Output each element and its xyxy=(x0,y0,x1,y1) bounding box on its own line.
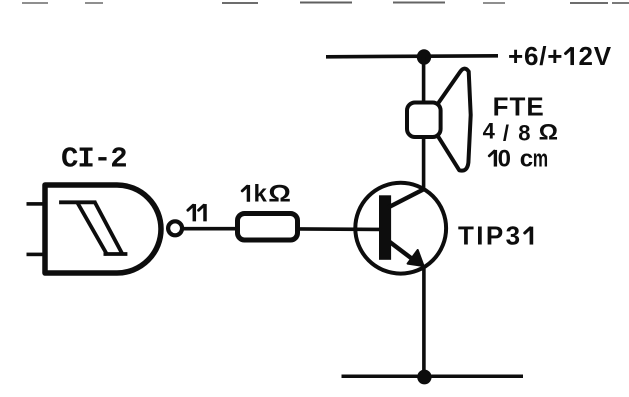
label +6/+12V xyxy=(508,41,612,71)
transistor Q1 TIP31 body circle xyxy=(355,183,446,274)
svg-text:2V: 2V xyxy=(579,41,612,71)
emitter lead xyxy=(388,240,414,259)
svg-text:c: c xyxy=(520,146,533,173)
speaker cone xyxy=(438,69,471,171)
svg-text:0: 0 xyxy=(498,146,511,173)
svg-text:k: k xyxy=(254,181,268,208)
resistor 1k body xyxy=(238,214,298,241)
wire gate output to resistor xyxy=(183,227,238,231)
svg-text:Ω: Ω xyxy=(268,180,291,207)
wire speaker to collector xyxy=(422,137,426,189)
svg-text:TIP3: TIP3 xyxy=(458,221,523,251)
junction dot at ground rail xyxy=(417,370,431,385)
wire base to resistor xyxy=(298,227,380,231)
wire emitter to ground rail xyxy=(422,265,426,376)
speaker FTE driver box xyxy=(407,103,441,138)
svg-text:m: m xyxy=(533,146,548,172)
gate input stub top xyxy=(27,202,43,206)
svg-text:FTE: FTE xyxy=(493,92,545,122)
gate input stub bottom xyxy=(27,253,43,257)
collector lead xyxy=(388,189,424,208)
power rail +6/+12V xyxy=(326,56,498,57)
wire rail to speaker xyxy=(422,57,426,104)
nand gate CI-2 outline xyxy=(45,185,161,273)
ground rail xyxy=(342,375,524,379)
pin number 11 xyxy=(188,205,205,219)
emitter arrowhead xyxy=(408,250,424,266)
label 10 cm xyxy=(489,146,548,173)
svg-text:4: 4 xyxy=(483,119,496,144)
schmitt trigger hysteresis symbol xyxy=(61,202,126,254)
label 1k ohm xyxy=(242,180,291,208)
svg-text:+6/+: +6/+ xyxy=(508,41,563,71)
svg-text:CI-2: CI-2 xyxy=(61,143,127,176)
label 4/8 ohm xyxy=(483,119,558,146)
label TIP31 xyxy=(458,221,531,251)
gate output bubble xyxy=(168,221,182,235)
junction dot at power rail xyxy=(417,49,431,64)
svg-text:Ω: Ω xyxy=(539,120,558,145)
svg-text:8: 8 xyxy=(518,121,530,146)
transistor base bar xyxy=(379,195,391,259)
svg-text:/: / xyxy=(503,120,509,145)
scan artifact top edge xyxy=(22,2,629,5)
